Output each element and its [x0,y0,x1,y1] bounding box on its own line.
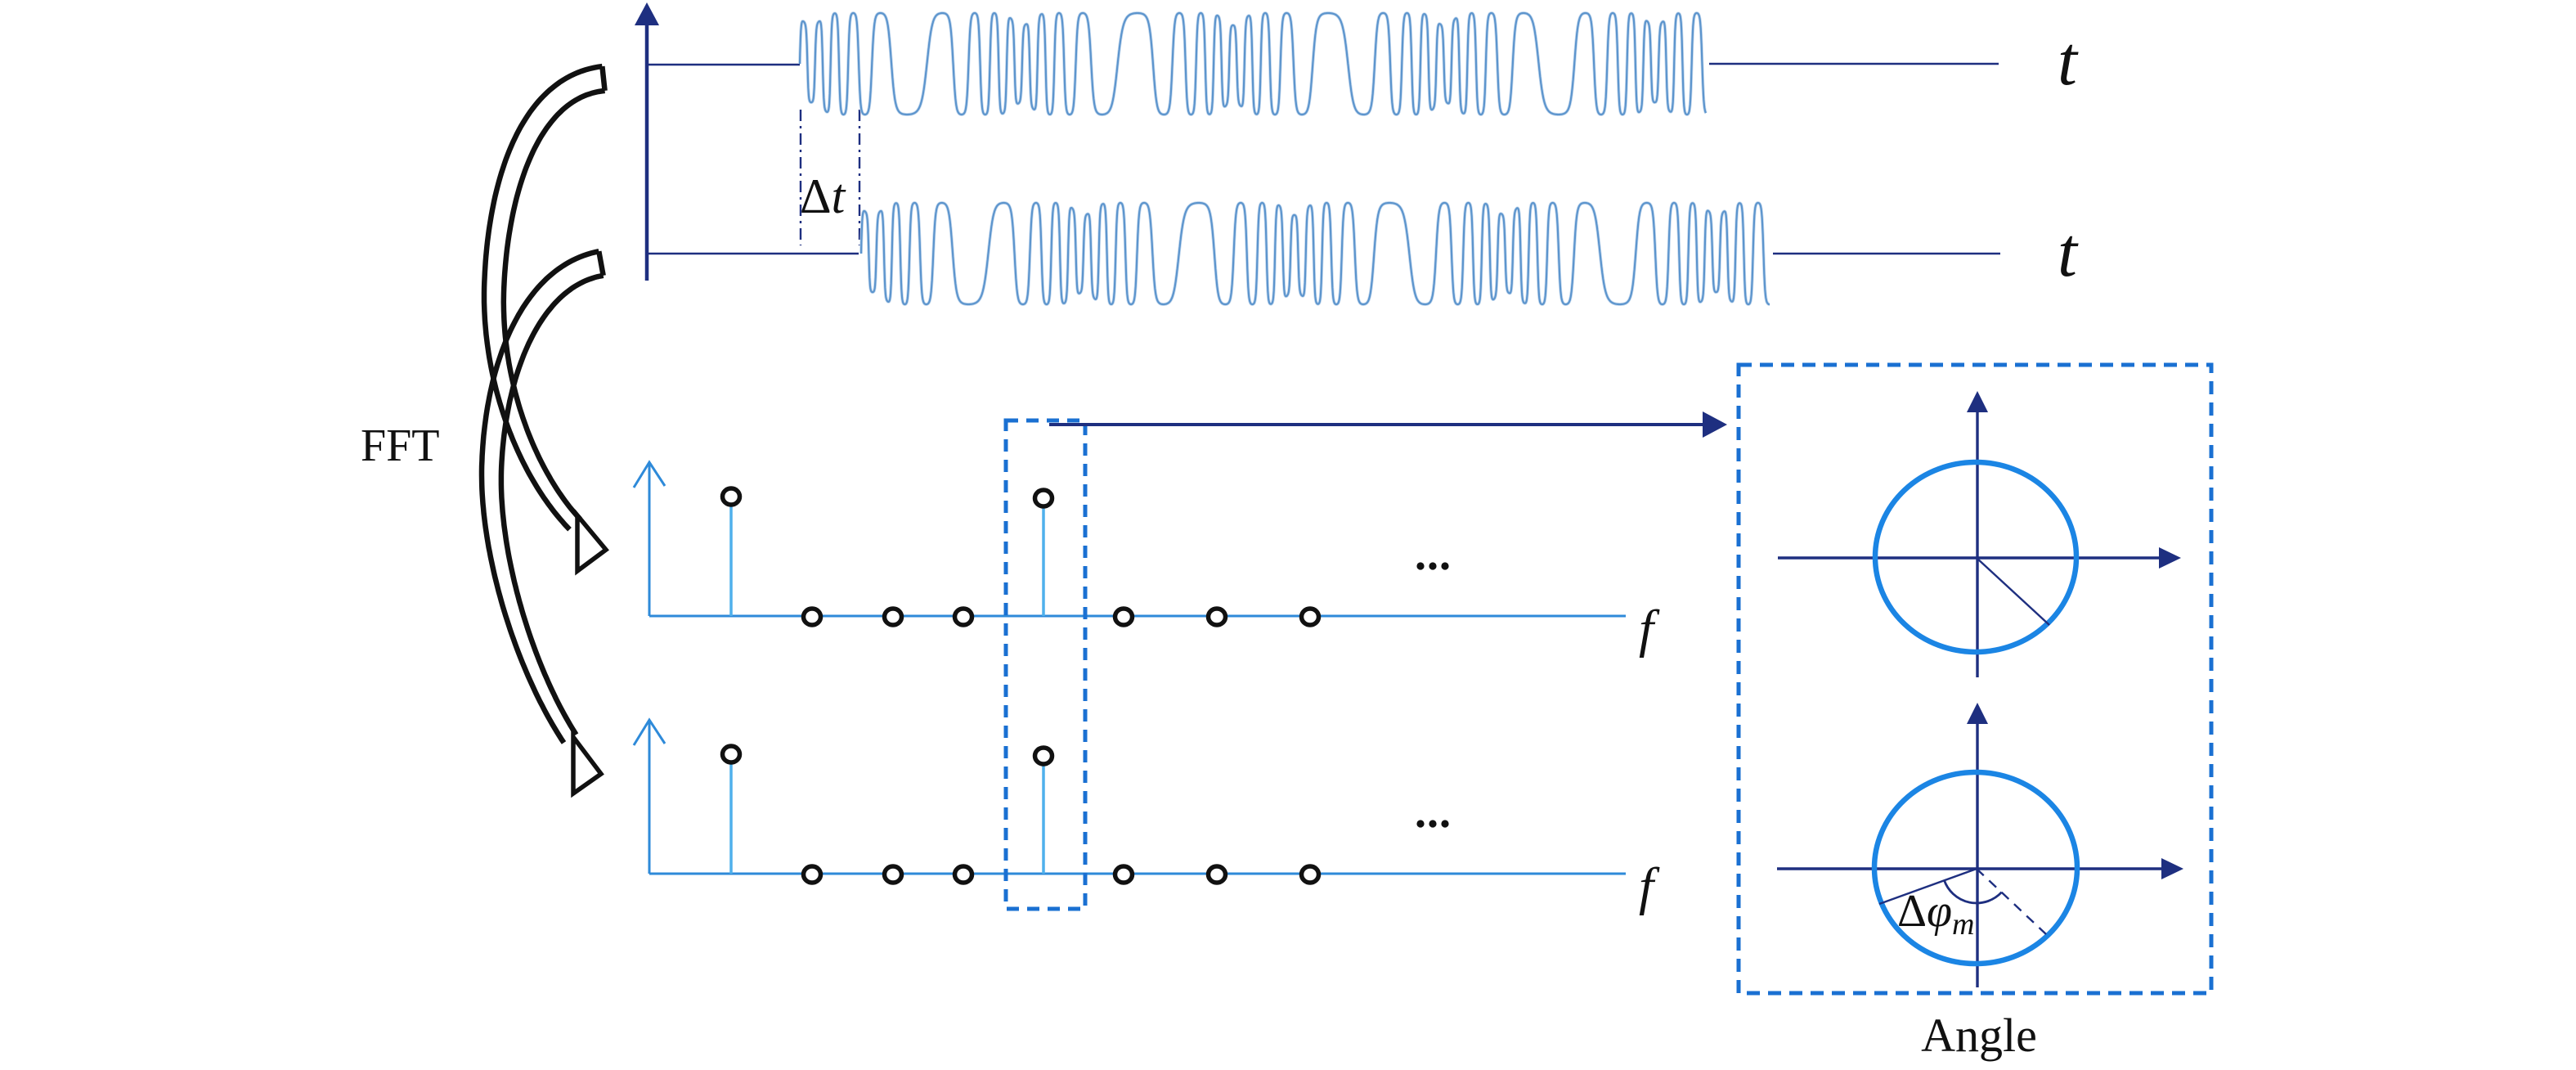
svg-text:Angle: Angle [1921,1009,2037,1062]
svg-text:Δt: Δt [800,169,846,223]
svg-text:t: t [2058,213,2079,291]
svg-text:FFT: FFT [361,420,440,471]
svg-text:t: t [2058,21,2079,100]
